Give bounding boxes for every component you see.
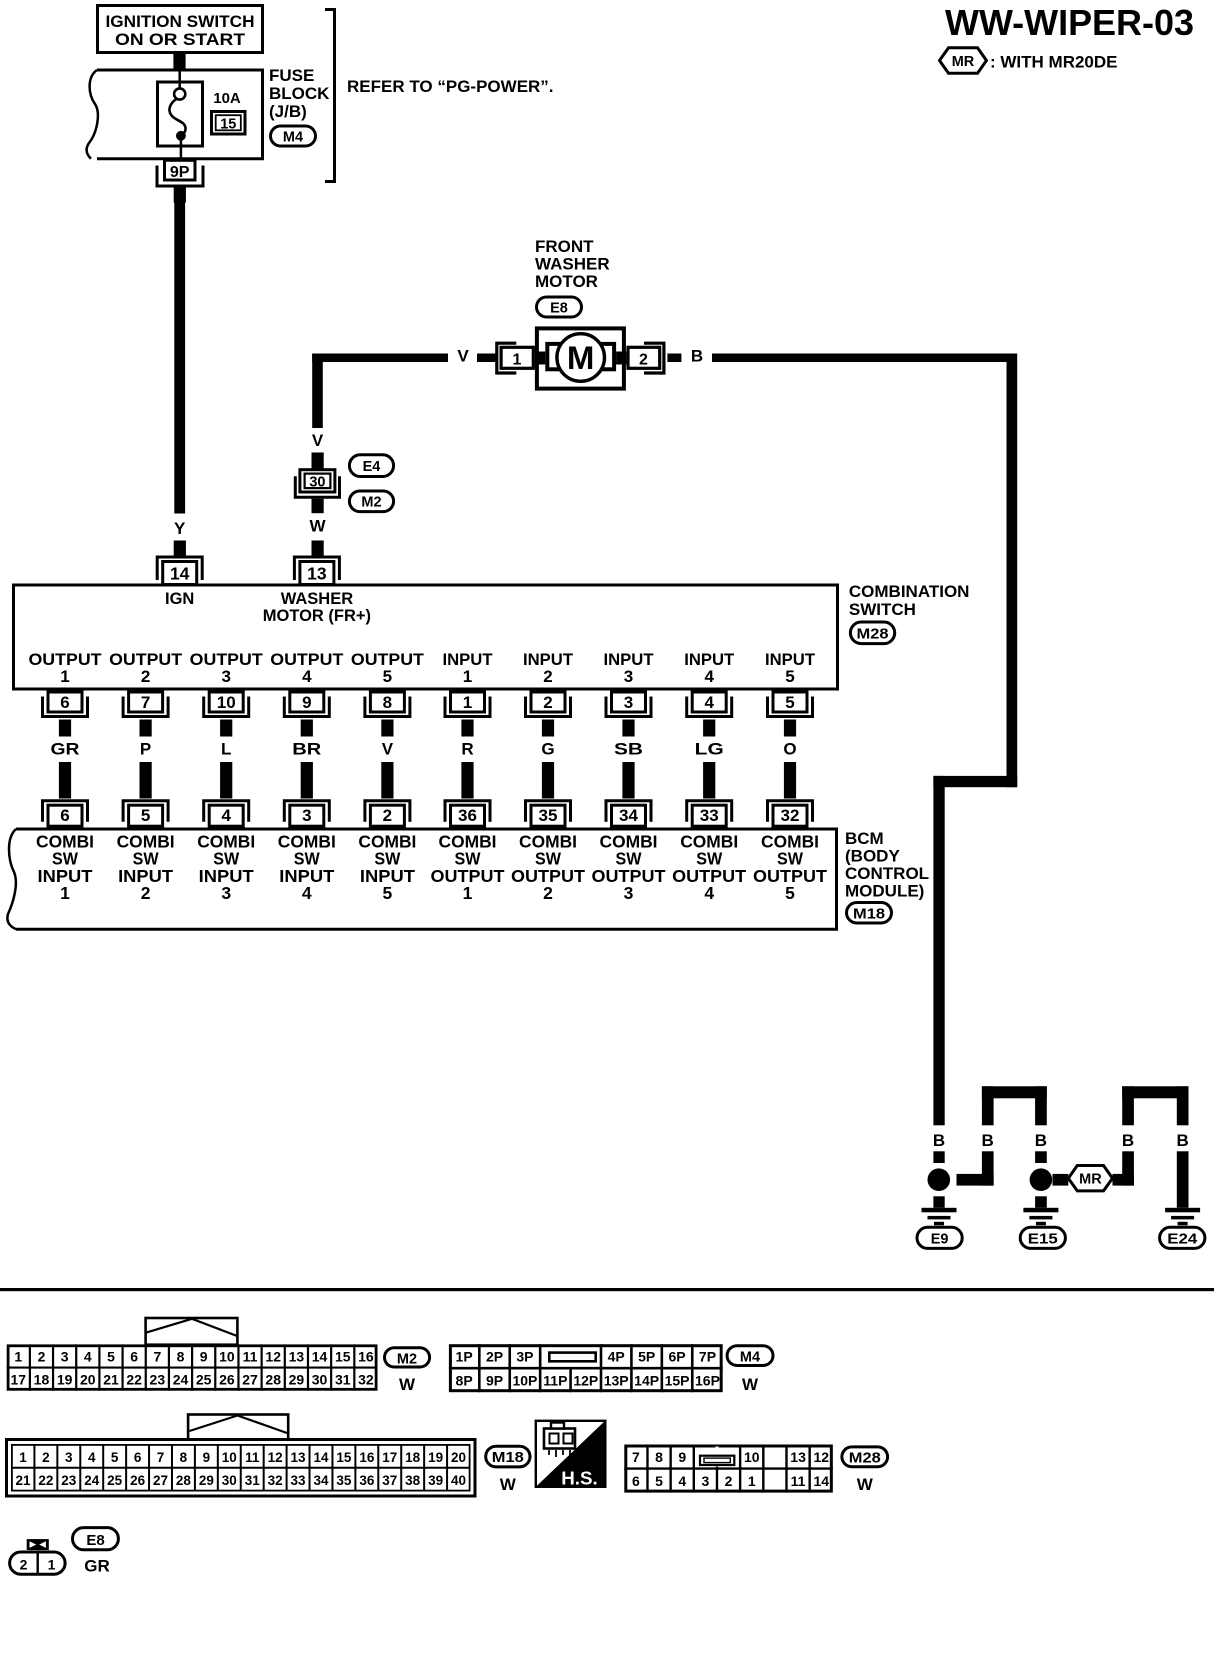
combination switch column label OUTPUT 4 [270,650,344,686]
svg-text:11: 11 [243,1348,258,1364]
wire label W [309,517,326,536]
combination switch pin 5 [768,692,813,717]
svg-text:7P: 7P [699,1349,716,1365]
svg-text:11: 11 [791,1473,806,1489]
wire stub to pin 13 [312,541,324,557]
svg-text:18: 18 [405,1450,421,1465]
BCM column label COMBI SW OUTPUT 1 [431,832,505,904]
svg-text:M18: M18 [492,1450,524,1466]
label BCM (BODY CONTROL MODULE) [845,829,929,901]
svg-text:4: 4 [704,883,714,903]
svg-text:11P: 11P [543,1373,567,1389]
svg-text:ON OR START: ON OR START [115,31,245,49]
svg-text:M2: M2 [361,495,381,511]
label W (M4) [742,1375,759,1394]
svg-text:36: 36 [458,806,477,825]
svg-text:8: 8 [180,1450,188,1465]
svg-text:8: 8 [655,1449,663,1465]
connector face E8 body [10,1539,66,1574]
svg-text:1: 1 [463,693,472,712]
svg-text:W: W [857,1475,874,1494]
svg-text:1: 1 [14,1348,22,1364]
svg-text:18: 18 [34,1372,50,1388]
junction node E15 [1030,1168,1053,1191]
svg-text:30: 30 [309,475,325,491]
svg-text:V: V [382,740,394,759]
label IGN [165,590,194,608]
BCM pin 6 [43,801,88,827]
wire B jog horizontal [933,776,1017,787]
svg-text:M28: M28 [857,627,889,643]
svg-text:36: 36 [359,1473,375,1488]
svg-text:13: 13 [291,1450,307,1465]
BCM pin 35 [526,801,571,827]
wire stub to E9 junction [933,1151,944,1163]
svg-text:38: 38 [405,1473,421,1488]
svg-text:M4: M4 [740,1349,760,1365]
svg-text:B: B [691,347,703,366]
svg-text:CONTROL: CONTROL [845,864,929,883]
wire R column 6 [461,720,473,799]
svg-text:3: 3 [221,667,230,686]
wire label B at x=1182.6 [1176,1131,1188,1150]
svg-text:E8: E8 [86,1532,104,1549]
pin 13 combination switch WASHER MOTOR [294,557,339,585]
svg-text:22: 22 [126,1372,142,1388]
wire P column 2 [140,720,152,799]
combination switch column label INPUT 2 [523,650,574,686]
svg-text:10A: 10A [213,90,241,107]
svg-text:31: 31 [245,1473,261,1488]
svg-text:1: 1 [60,883,70,903]
svg-text:6P: 6P [668,1349,685,1365]
svg-text:MR: MR [952,54,975,70]
svg-text:14: 14 [312,1348,328,1364]
svg-text:5: 5 [655,1473,663,1489]
svg-text:23: 23 [150,1372,166,1388]
svg-text:24: 24 [84,1473,100,1488]
svg-text:2: 2 [383,806,392,825]
svg-text:W: W [742,1375,759,1394]
svg-text:14P: 14P [634,1373,659,1389]
svg-text:34: 34 [619,806,638,825]
wire B horizontal right of motor [667,354,1017,363]
connector face M2 grid [7,1344,378,1390]
connector 9P [157,160,203,186]
svg-text:M4: M4 [283,130,303,146]
svg-text:25: 25 [196,1372,212,1388]
svg-text:MOTOR (FR+): MOTOR (FR+) [263,607,371,625]
svg-text:12: 12 [813,1449,829,1465]
svg-text:33: 33 [291,1473,307,1488]
svg-text:2: 2 [38,1348,46,1364]
svg-text:4P: 4P [608,1349,625,1365]
svg-text:9P: 9P [486,1373,503,1389]
svg-text:2: 2 [141,667,150,686]
wire V horizontal left of motor [312,354,495,363]
combination switch column label INPUT 5 [765,650,816,686]
svg-text:5: 5 [785,883,795,903]
wire E15 junction to ground [1035,1196,1047,1208]
BCM pin 2 [365,801,410,827]
BCM column label COMBI SW OUTPUT 3 [592,832,666,904]
svg-text:20: 20 [451,1450,466,1465]
svg-text:2: 2 [42,1450,50,1465]
BCM pin 4 [204,801,249,827]
svg-text:H.S.: H.S. [561,1468,598,1489]
svg-text:4: 4 [704,667,714,686]
svg-text:9: 9 [200,1348,208,1364]
svg-text:1: 1 [19,1450,27,1465]
svg-text:10: 10 [217,693,236,712]
svg-text:3: 3 [624,883,634,903]
svg-text:14: 14 [313,1450,329,1465]
label W (M2) [399,1375,416,1394]
svg-text:O: O [783,740,796,759]
svg-text:14: 14 [170,564,190,584]
svg-text:E9: E9 [931,1231,949,1247]
combination switch pin 3 [606,692,651,717]
svg-text:SWITCH: SWITCH [849,600,916,619]
svg-text:24: 24 [173,1372,189,1388]
svg-text:Y: Y [174,519,186,538]
svg-text:1: 1 [463,667,472,686]
connector ref M2 oval (face) [385,1348,430,1368]
svg-text:B: B [1035,1131,1047,1150]
svg-text:27: 27 [153,1473,168,1488]
svg-text:25: 25 [107,1473,123,1488]
connector 30 (E4/M2 pass-through) [295,470,339,498]
combination switch pin 1 [445,692,490,717]
connector ref M18 oval (face) [486,1446,530,1467]
svg-text:5: 5 [383,667,392,686]
combination switch pin 8 [365,692,410,717]
fuse label 10A [213,90,241,107]
combination switch pin 2 [526,692,571,717]
BCM column label COMBI SW OUTPUT 4 [672,832,746,904]
svg-text:9: 9 [302,693,311,712]
svg-text:13P: 13P [604,1373,629,1389]
wire LG column 9 [695,720,724,799]
connector face M4 grid [449,1344,723,1392]
svg-text:: WITH MR20DE: : WITH MR20DE [990,53,1118,72]
svg-text:13: 13 [289,1348,305,1364]
svg-text:4: 4 [704,693,714,712]
svg-text:35: 35 [336,1473,352,1488]
combination switch column label INPUT 3 [604,650,655,686]
fuse 15 symbol [158,71,203,160]
motor pin 2 [628,343,664,373]
svg-text:2: 2 [543,883,553,903]
svg-text:BCM: BCM [845,829,884,848]
legend MR hexagon : WITH MR20DE [940,48,1118,74]
svg-text:5: 5 [107,1348,115,1364]
BCM pin 32 [768,801,813,827]
svg-text:3: 3 [302,806,311,825]
svg-text:26: 26 [130,1473,146,1488]
svg-text:REFER TO “PG-POWER”.: REFER TO “PG-POWER”. [347,77,554,96]
wire stub above 30 [312,453,324,470]
svg-text:14: 14 [813,1473,829,1489]
label COMBINATION SWITCH [849,582,970,619]
wire stub to pin 14 [174,541,186,557]
connector ref E4 oval [349,455,393,477]
svg-text:V: V [457,347,469,366]
svg-text:5: 5 [383,883,393,903]
combination switch pin 4 [687,692,732,717]
wire V vertical [312,354,323,429]
svg-text:6: 6 [632,1473,640,1489]
svg-text:3: 3 [65,1450,73,1465]
fuse block label FUSE BLOCK (J/B) [269,66,330,121]
connector face M18 grid [7,1440,476,1497]
combination switch column label OUTPUT 1 [29,650,103,686]
svg-text:4: 4 [678,1473,686,1489]
svg-text:IGN: IGN [165,590,194,608]
H.S. detail mark [536,1421,606,1489]
BCM column label COMBI SW INPUT 4 [278,832,336,904]
ground symbol E24 [1165,1208,1200,1226]
separator line [0,1288,1214,1291]
svg-text:3: 3 [624,693,633,712]
svg-text:8P: 8P [456,1373,473,1389]
combination switch column label INPUT 4 [684,650,735,686]
BCM pin 3 [284,801,329,827]
svg-text:23: 23 [61,1473,77,1488]
svg-text:2: 2 [543,693,552,712]
svg-text:3: 3 [61,1348,69,1364]
svg-text:2: 2 [20,1557,28,1573]
wire Y vertical [174,203,185,514]
svg-text:W: W [500,1475,517,1494]
svg-text:3: 3 [221,883,231,903]
svg-text:19: 19 [428,1450,443,1465]
svg-text:32: 32 [781,806,800,825]
svg-text:1: 1 [513,352,522,369]
front washer motor label [535,237,610,291]
wire label V [457,347,469,366]
svg-text:10P: 10P [512,1373,537,1389]
connector face M2 tab [146,1318,238,1345]
svg-text:7: 7 [632,1449,640,1465]
svg-text:MODULE): MODULE) [845,882,924,901]
combination switch column label OUTPUT 5 [351,650,425,686]
svg-text:10: 10 [219,1348,235,1364]
wire G column 7 [541,720,554,799]
wire label B at x=1128 [1122,1131,1134,1150]
svg-text:29: 29 [199,1473,214,1488]
svg-text:12: 12 [268,1450,283,1465]
svg-text:BR: BR [292,740,321,759]
svg-text:MR: MR [1079,1172,1102,1188]
svg-text:M2: M2 [397,1352,417,1368]
svg-text:E4: E4 [363,459,381,475]
BCM column label COMBI SW OUTPUT 2 [511,832,585,904]
wire MR hexagon to U2 left leg [1113,1151,1134,1185]
svg-text:5: 5 [111,1450,119,1465]
svg-text:R: R [461,740,473,759]
wire E9 junction to U1 left leg [957,1151,994,1185]
svg-text:IGNITION SWITCH: IGNITION SWITCH [106,13,255,31]
label W (M18) [500,1475,517,1494]
combination switch pin 6 [43,692,88,717]
svg-text:11: 11 [245,1450,260,1465]
svg-text:W: W [399,1375,416,1394]
svg-text:9: 9 [678,1449,686,1465]
svg-text:B: B [1122,1131,1134,1150]
svg-text:FUSE: FUSE [269,66,314,85]
svg-text:30: 30 [222,1473,237,1488]
svg-text:GR: GR [84,1557,110,1576]
svg-text:4: 4 [221,806,231,825]
svg-text:5: 5 [785,667,794,686]
svg-text:15: 15 [336,1450,352,1465]
svg-text:1: 1 [748,1473,756,1489]
svg-text:SB: SB [614,740,643,759]
svg-text:19: 19 [57,1372,73,1388]
svg-text:15P: 15P [665,1373,690,1389]
pin 14 combination switch IGN [157,557,202,585]
svg-text:30: 30 [312,1372,328,1388]
wire U-loop 1 (E9-E15) [982,1086,1047,1125]
svg-text:17: 17 [10,1372,26,1388]
wire stub below 9P [174,188,186,203]
svg-text:2: 2 [141,883,151,903]
svg-text:M28: M28 [849,1451,881,1467]
svg-text:G: G [541,740,554,759]
svg-text:22: 22 [38,1473,53,1488]
svg-text:3P: 3P [516,1349,533,1365]
svg-text:B: B [933,1131,945,1150]
svg-text:8: 8 [177,1348,185,1364]
svg-text:27: 27 [242,1372,258,1388]
svg-text:35: 35 [539,806,558,825]
MR hexagon (with MR20DE) [1068,1166,1112,1191]
bracket refer to PG-POWER [325,10,554,182]
svg-text:34: 34 [313,1473,329,1488]
svg-text:8: 8 [383,693,392,712]
svg-text:10: 10 [222,1450,237,1465]
wire U2 right leg to ground E24 [1177,1151,1189,1208]
svg-text:MOTOR: MOTOR [535,272,598,291]
label WASHER MOTOR (FR+) [263,590,371,625]
label GR (E8) [84,1557,110,1576]
svg-text:32: 32 [358,1372,374,1388]
connector face M18 tab [188,1415,288,1440]
svg-text:2P: 2P [486,1349,503,1365]
svg-text:5: 5 [785,693,794,712]
svg-text:WW-WIPER-03: WW-WIPER-03 [945,2,1194,43]
svg-text:FRONT: FRONT [535,237,594,256]
svg-text:37: 37 [382,1473,397,1488]
BCM pin 33 [687,801,732,827]
connector ref M4 oval [271,126,316,146]
svg-text:16: 16 [359,1450,375,1465]
motor pin 1 [497,343,534,373]
wire U-loop 2 (E15-E24) [1122,1086,1188,1125]
connector ref M28 oval [850,622,894,644]
ignition switch box [98,6,263,53]
svg-text:6: 6 [60,806,69,825]
svg-text:21: 21 [15,1473,31,1488]
svg-text:2: 2 [725,1473,733,1489]
wire BR column 4 [292,720,321,799]
svg-text:17: 17 [382,1450,397,1465]
svg-text:GR: GR [51,740,80,759]
wire U1 right leg to E15 junction [1035,1151,1047,1163]
svg-text:M18: M18 [853,906,885,922]
svg-text:2: 2 [543,667,552,686]
svg-text:15: 15 [335,1348,351,1364]
svg-text:16: 16 [358,1348,374,1364]
svg-text:4: 4 [302,667,312,686]
front washer motor M1 [535,328,626,388]
svg-text:1: 1 [60,667,69,686]
connector ref E8 oval [537,297,582,317]
svg-text:28: 28 [176,1473,192,1488]
svg-text:LG: LG [695,740,724,759]
BCM column label COMBI SW INPUT 2 [117,832,175,904]
BCM box with torn left edge [7,829,836,929]
ground ref E15 oval [1020,1227,1065,1248]
svg-text:6: 6 [60,693,69,712]
wire label B at x=1040.9 [1035,1131,1047,1150]
combination switch box [14,585,838,689]
combination switch pin 7 [123,692,168,717]
svg-text:B: B [1176,1131,1188,1150]
wire E9 junction to ground [933,1196,944,1208]
svg-text:V: V [312,431,324,450]
wire B vertical to ground area [933,776,944,1125]
title WW-WIPER-03 [945,2,1194,43]
wire GR column 1 [51,720,80,799]
svg-text:E8: E8 [550,301,568,317]
svg-text:1: 1 [48,1557,56,1573]
wire O column 10 [783,720,796,799]
svg-text:26: 26 [219,1372,235,1388]
BCM pin 5 [123,801,168,827]
svg-text:5: 5 [141,806,150,825]
wire label V (vertical) [312,431,324,450]
svg-text:32: 32 [268,1473,283,1488]
fuse block (J/B) box with torn left edge [87,70,263,159]
svg-text:13: 13 [790,1449,806,1465]
svg-text:33: 33 [700,806,719,825]
combination switch column label INPUT 1 [443,650,494,686]
svg-text:(J/B): (J/B) [269,102,307,121]
svg-text:1: 1 [463,883,473,903]
svg-text:13: 13 [307,564,327,584]
svg-text:6: 6 [134,1450,142,1465]
svg-text:29: 29 [289,1372,305,1388]
junction node E9 [928,1168,951,1191]
svg-text:3: 3 [624,667,633,686]
svg-text:7: 7 [157,1450,165,1465]
wire label Y [174,519,186,538]
svg-text:E24: E24 [1167,1231,1197,1247]
connector ref M18 oval [847,903,892,924]
wire SB column 8 [614,720,643,799]
svg-text:P: P [140,740,151,759]
svg-text:7: 7 [153,1348,161,1364]
wire E15 junction to MR hexagon [1053,1174,1069,1186]
connector ref M28 oval (face) [842,1447,888,1467]
svg-text:E15: E15 [1028,1231,1058,1247]
svg-text:5P: 5P [638,1349,655,1365]
label W (M28) [857,1475,874,1494]
ground symbol E9 [922,1208,957,1226]
svg-text:16P: 16P [695,1373,720,1389]
